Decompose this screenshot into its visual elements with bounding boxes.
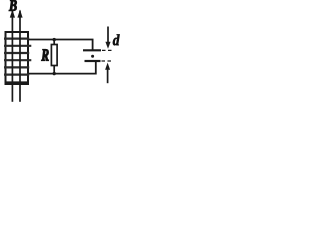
label d <box>113 34 120 45</box>
capacitor C1 bottom plate <box>85 60 101 62</box>
label R <box>41 49 48 60</box>
capacitor C1 top plate <box>83 49 101 51</box>
dimension extension dashes (top plate level) <box>102 49 113 51</box>
node junction dot bottom <box>53 72 56 75</box>
coil L1 (hatched rectangle frame) <box>5 32 30 84</box>
charged particle between plates <box>91 55 94 58</box>
label B <box>9 0 17 11</box>
dimension arrow down (to top plate) <box>105 27 110 49</box>
B field line 2 (right, arrow up through coil) <box>17 10 22 102</box>
coil L1 winding hatch lines <box>4 39 31 75</box>
B field line 1 (left, arrow up through coil) <box>10 10 15 102</box>
wire top (coil to capacitor top plate, with corner down) <box>29 40 93 51</box>
wire bottom (coil to capacitor bottom plate, with corner up) <box>29 61 96 74</box>
dimension extension dashes (bottom plate level) <box>102 60 114 62</box>
node junction dot top (resistor tap) <box>53 38 56 41</box>
dimension arrow up (to bottom plate) <box>105 63 110 84</box>
resistor R1 <box>51 40 57 74</box>
